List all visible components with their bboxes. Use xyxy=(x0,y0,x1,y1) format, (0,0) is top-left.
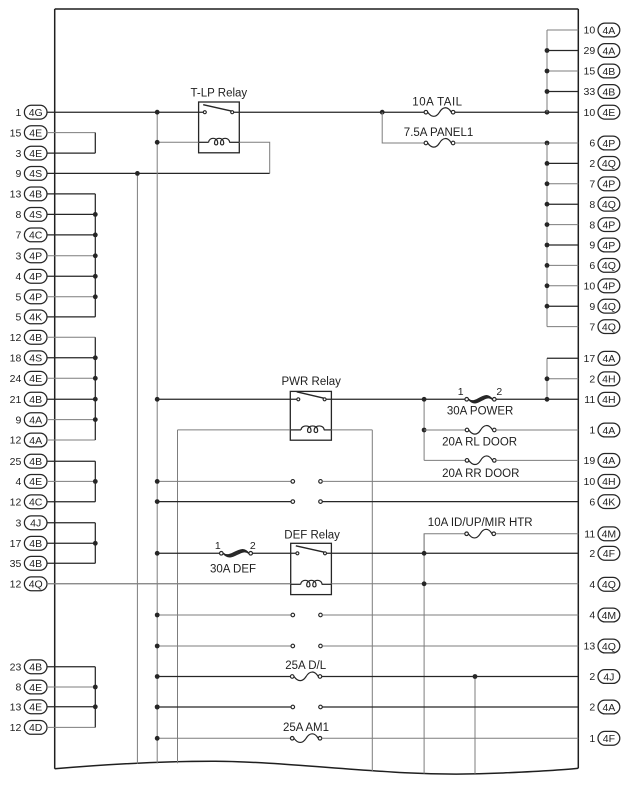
wire from pin 4 (4P) xyxy=(47,275,95,277)
svg-text:1: 1 xyxy=(589,733,595,745)
wire right bus C (power feed) xyxy=(546,358,548,399)
wire to pin 17 (4A) xyxy=(547,357,578,359)
svg-text:8: 8 xyxy=(15,682,21,694)
svg-text:4S: 4S xyxy=(29,168,42,180)
wire row y=615.0 left segment xyxy=(157,614,291,616)
svg-text:5: 5 xyxy=(15,312,21,324)
wire 30A POWER to 11(4H) xyxy=(496,398,578,400)
svg-text:2: 2 xyxy=(589,702,595,714)
junction 9(4S) row / x137 feed xyxy=(135,171,140,176)
junction POWER row / bus C xyxy=(545,397,550,402)
wire from pin 12 (4A) xyxy=(47,439,95,441)
junction bus / 7 (4P) row xyxy=(545,181,550,186)
connector pair terminals row y=501.6 xyxy=(291,500,295,504)
svg-text:8: 8 xyxy=(589,199,595,211)
wire from pin 5 (4P) xyxy=(47,296,95,298)
relay U3 DEF switch blade xyxy=(296,546,325,552)
svg-text:4P: 4P xyxy=(29,292,42,304)
junction on bracket at y=296.8 xyxy=(93,294,98,299)
wire from pin 12 (4D) xyxy=(47,726,95,728)
junction x157 DEF feed xyxy=(155,551,160,556)
junction on bracket at y=481.4 xyxy=(93,479,98,484)
wire from pin 12 (4C) xyxy=(47,501,95,503)
wire PWR coil left branch xyxy=(178,429,291,431)
junction T-LP coil feed xyxy=(155,140,160,145)
wire from pin 8 (4E) xyxy=(47,686,95,688)
frame border bottom wavy edge xyxy=(55,761,579,774)
connector pair terminals row y=707.0 xyxy=(291,705,295,709)
wire from pin 13 (4E) xyxy=(47,706,95,708)
wire from pin 3 (4J) xyxy=(47,522,95,524)
junction on bracket at y=255.8 xyxy=(93,253,98,258)
wire bracket joining 3(4J)..35(4B) xyxy=(94,523,96,564)
wire row y=707.0 right segment xyxy=(322,706,578,708)
svg-text:4J: 4J xyxy=(30,518,41,530)
wire to pin 33 (4B) xyxy=(547,91,578,93)
wire to pin 6 (4Q) xyxy=(547,264,578,266)
wire ID/UP/MIR HTR row xyxy=(424,534,465,554)
wire from pin 23 (4B) xyxy=(47,666,95,668)
svg-text:4A: 4A xyxy=(602,702,615,714)
svg-text:4B: 4B xyxy=(29,538,42,550)
wire 25A D/L row xyxy=(157,676,290,678)
wire bracket joining 23(4B)..12(4D) xyxy=(94,667,96,728)
junction x157 row y=707.0 xyxy=(155,705,160,710)
svg-text:4A: 4A xyxy=(602,425,615,437)
junction TAIL/PANEL branch xyxy=(380,110,385,115)
relay U1 T-LP switch blade xyxy=(203,105,231,111)
svg-text:2: 2 xyxy=(589,158,595,170)
junction bus / 10 (4P) row xyxy=(545,283,550,288)
wire from pin 18 (4S) xyxy=(47,357,95,359)
svg-text:11: 11 xyxy=(584,394,595,406)
svg-text:4H: 4H xyxy=(602,394,615,406)
junction bus / 29 (4A) row xyxy=(545,48,550,53)
svg-text:10A TAIL: 10A TAIL xyxy=(412,96,462,108)
wire 30A DEF to DEF relay xyxy=(253,552,296,554)
junction x157 on 1(4G) row xyxy=(155,110,160,115)
wire right bus A (tail lamps) xyxy=(546,30,548,112)
junction DEF coil row x424 xyxy=(422,581,427,586)
wire to pin 2 (4H) xyxy=(547,378,578,380)
wire from pin 9 (4A) xyxy=(47,419,95,421)
junction x157 row y=646.0 xyxy=(155,644,160,649)
relay U3 DEF switch contacts xyxy=(296,552,299,555)
svg-text:4A: 4A xyxy=(29,414,42,426)
svg-text:7: 7 xyxy=(589,321,595,333)
svg-text:5: 5 xyxy=(15,292,21,304)
svg-text:4A: 4A xyxy=(602,25,615,37)
wire from pin 35 (4B) xyxy=(47,562,95,564)
wire PWR switch output to 30A POWER xyxy=(326,398,465,400)
wire vertical main feed from 1(4G) row x=157 xyxy=(156,112,158,763)
junction on bracket at y=419.6 xyxy=(93,417,98,422)
junction x157 row y=481.4 xyxy=(155,479,160,484)
svg-text:2: 2 xyxy=(250,540,256,552)
svg-text:11: 11 xyxy=(584,529,595,541)
wire bracket joining 25(4B)..12(4C) xyxy=(94,461,96,502)
svg-text:25A AM1: 25A AM1 xyxy=(283,722,329,734)
svg-text:35: 35 xyxy=(10,558,22,570)
wire from pin 8 (4S) xyxy=(47,213,95,215)
svg-text:4E: 4E xyxy=(29,127,42,139)
junction on bracket at y=234.9 xyxy=(93,233,98,238)
svg-text:3: 3 xyxy=(15,148,21,160)
svg-text:33: 33 xyxy=(584,86,596,98)
svg-text:2: 2 xyxy=(589,374,595,386)
svg-text:4D: 4D xyxy=(29,722,43,734)
svg-text:4F: 4F xyxy=(603,548,615,560)
svg-text:4G: 4G xyxy=(29,107,43,119)
junction on bracket at y=276.3 xyxy=(93,274,98,279)
wire vertical from PWR coil right x=372 xyxy=(371,430,373,772)
svg-text:9: 9 xyxy=(15,168,21,180)
svg-text:4Q: 4Q xyxy=(602,321,616,333)
svg-text:13: 13 xyxy=(10,189,22,201)
wire to pin 9 (4P) xyxy=(547,244,578,246)
junction x157 PWR feed xyxy=(155,397,160,402)
junction PANEL1 row / right bus xyxy=(545,141,550,146)
wire to pin 10 (4A) xyxy=(547,29,578,31)
svg-text:4E: 4E xyxy=(29,702,42,714)
wire PANEL1 branch drop xyxy=(382,112,424,143)
svg-text:18: 18 xyxy=(10,353,22,365)
svg-text:4: 4 xyxy=(15,476,21,488)
svg-text:29: 29 xyxy=(584,45,596,57)
svg-text:4S: 4S xyxy=(29,353,42,365)
svg-text:6: 6 xyxy=(589,138,595,150)
svg-text:4M: 4M xyxy=(602,610,617,622)
wire to pin 29 (4A) xyxy=(547,50,578,52)
svg-text:10A ID/UP/MIR HTR: 10A ID/UP/MIR HTR xyxy=(428,517,533,529)
wire from pin 12 (4Q) xyxy=(47,583,291,585)
wire RR door row xyxy=(424,459,465,461)
relay U2 PWR coil xyxy=(290,429,301,431)
relay U3 DEF coil xyxy=(291,583,301,585)
junction DEF switch row x424 xyxy=(422,551,427,556)
svg-text:4K: 4K xyxy=(29,312,42,324)
wire to pin 8 (4P) xyxy=(547,224,578,226)
svg-text:10: 10 xyxy=(584,25,596,37)
wire DEF coil to 4(4Q) xyxy=(331,583,578,585)
relay U2 PWR switch contacts xyxy=(297,398,300,401)
svg-text:12: 12 xyxy=(10,435,22,447)
svg-text:4P: 4P xyxy=(602,281,615,293)
svg-text:2: 2 xyxy=(589,671,595,683)
wire bracket joining 13(4B)..5(4K) xyxy=(94,194,96,317)
svg-text:20A RR DOOR: 20A RR DOOR xyxy=(442,468,519,480)
wire right bus B (panel lamps) xyxy=(546,143,548,327)
relay U1 T-LP switch contacts xyxy=(203,111,206,114)
svg-text:4J: 4J xyxy=(603,671,614,683)
svg-text:12: 12 xyxy=(10,497,22,509)
wire to pin 7 (4P) xyxy=(547,183,578,185)
svg-text:7: 7 xyxy=(15,230,21,242)
wire DEF feed from x157 to 30A DEF xyxy=(157,552,219,554)
wire PANEL1 fuse to 6(4P) xyxy=(455,142,578,144)
svg-text:13: 13 xyxy=(10,702,22,714)
svg-text:24: 24 xyxy=(10,373,22,385)
svg-text:4B: 4B xyxy=(602,66,615,78)
svg-text:4Q: 4Q xyxy=(602,260,616,272)
svg-text:4B: 4B xyxy=(29,332,42,344)
wire from pin 3 (4P) xyxy=(47,255,95,257)
svg-text:3: 3 xyxy=(15,251,21,263)
svg-text:4E: 4E xyxy=(602,107,615,119)
svg-text:4Q: 4Q xyxy=(602,158,616,170)
wire from pin 21 (4B) xyxy=(47,398,95,400)
svg-text:4A: 4A xyxy=(29,435,42,447)
svg-text:1: 1 xyxy=(15,107,21,119)
junction D/L row x475 xyxy=(473,674,478,679)
svg-text:9: 9 xyxy=(589,240,595,252)
svg-text:4E: 4E xyxy=(29,476,42,488)
svg-text:4Q: 4Q xyxy=(602,579,616,591)
wire from pin 7 (4C) xyxy=(47,234,95,236)
wire 25A AM1 row xyxy=(157,737,290,739)
svg-text:6: 6 xyxy=(589,260,595,272)
svg-text:8: 8 xyxy=(589,219,595,231)
svg-text:10: 10 xyxy=(584,281,596,293)
svg-text:25A D/L: 25A D/L xyxy=(285,660,327,672)
svg-text:19: 19 xyxy=(584,455,596,467)
svg-text:4B: 4B xyxy=(29,189,42,201)
frame border left xyxy=(54,9,56,769)
svg-text:4S: 4S xyxy=(29,209,42,221)
wire T-LP coil feed from x157 xyxy=(157,141,198,143)
wire 12(4Q) row to DEF coil (left) xyxy=(47,583,291,585)
svg-text:21: 21 xyxy=(10,394,22,406)
wire from pin 12 (4B) xyxy=(47,336,95,338)
svg-text:DEF Relay: DEF Relay xyxy=(284,529,340,541)
junction bus / 8 (4P) row xyxy=(545,222,550,227)
svg-text:4Q: 4Q xyxy=(602,199,616,211)
wire row y=501.6 right segment xyxy=(322,501,578,503)
wire from pin 17 (4B) xyxy=(47,542,95,544)
svg-text:4P: 4P xyxy=(29,271,42,283)
svg-text:4P: 4P xyxy=(602,138,615,150)
svg-text:4: 4 xyxy=(15,271,21,283)
svg-text:1: 1 xyxy=(458,386,464,398)
wire from pin 4 (4E) xyxy=(47,480,95,482)
wire T-LP switch output to 10A TAIL xyxy=(234,111,424,113)
wire vertical x=424 (POWER to RL/RR door) xyxy=(423,399,425,460)
junction on bracket at y=687.0 xyxy=(93,685,98,690)
wire vertical x=424 (ID fuse / DEF rows to bottom) xyxy=(423,534,425,774)
svg-text:4P: 4P xyxy=(602,219,615,231)
wire from pin 9 (4S) xyxy=(47,172,270,174)
wire T-LP coil right to 9(4S) row xyxy=(239,142,269,173)
svg-text:4A: 4A xyxy=(602,455,615,467)
wire from pin 25 (4B) xyxy=(47,460,95,462)
junction x157 row y=501.6 xyxy=(155,499,160,504)
wire row y=707.0 left segment xyxy=(157,706,291,708)
svg-text:20A RL DOOR: 20A RL DOOR xyxy=(442,437,517,449)
svg-text:4E: 4E xyxy=(29,682,42,694)
junction on bracket at y=399.2 xyxy=(93,397,98,402)
wire TAIL fuse to 10(4E) xyxy=(455,111,578,113)
svg-text:4M: 4M xyxy=(602,529,617,541)
wire bracket joining 12(4B)..12(4A) xyxy=(94,337,96,440)
svg-text:4H: 4H xyxy=(602,476,615,488)
wire vertical feed from 9(4S) row x=137 xyxy=(136,173,138,763)
svg-text:4H: 4H xyxy=(602,374,615,386)
svg-text:15: 15 xyxy=(584,66,596,78)
wire RL door row xyxy=(424,429,465,431)
wire from pin 24 (4E) xyxy=(47,377,95,379)
connector pair terminals row y=481.4 xyxy=(291,480,295,484)
svg-text:PWR Relay: PWR Relay xyxy=(282,376,342,388)
wire to pin 8 (4Q) xyxy=(547,203,578,205)
svg-text:4F: 4F xyxy=(603,733,615,745)
svg-text:4P: 4P xyxy=(29,251,42,263)
svg-text:4A: 4A xyxy=(602,45,615,57)
junction bus / 9 (4Q) row xyxy=(545,304,550,309)
wire from pin 5 (4K) xyxy=(47,316,95,318)
connector pair terminals row y=615.0 xyxy=(291,613,295,617)
svg-text:12: 12 xyxy=(10,579,22,591)
wire from pin 15 (4E) xyxy=(47,132,95,134)
svg-text:4Q: 4Q xyxy=(602,641,616,653)
wire PWR switch feed from x157 xyxy=(157,398,297,400)
svg-text:9: 9 xyxy=(15,414,21,426)
wire from pin 1 (4G) xyxy=(47,111,203,113)
wire to pin 15 (4B) xyxy=(547,70,578,72)
junction on bracket at y=706.8 xyxy=(93,704,98,709)
relay U2 PWR switch blade xyxy=(297,392,324,398)
svg-text:10: 10 xyxy=(584,107,596,119)
svg-text:4E: 4E xyxy=(29,373,42,385)
wire DEF switch output to 2(4F) xyxy=(327,552,579,554)
svg-text:4B: 4B xyxy=(29,456,42,468)
svg-text:T-LP Relay: T-LP Relay xyxy=(191,88,248,100)
svg-text:3: 3 xyxy=(15,518,21,530)
svg-text:30A POWER: 30A POWER xyxy=(447,406,513,418)
wire row y=481.4 right segment xyxy=(322,480,578,482)
junction bus / 6 (4Q) row xyxy=(545,263,550,268)
wire row y=646.0 left segment xyxy=(157,645,291,647)
wire from pin 3 (4E) xyxy=(47,152,95,154)
svg-text:12: 12 xyxy=(10,332,22,344)
svg-text:25: 25 xyxy=(10,456,22,468)
svg-text:30A DEF: 30A DEF xyxy=(210,563,256,575)
wire to pin 7 (4Q) xyxy=(547,326,578,328)
junction on bracket at y=543.3 xyxy=(93,541,98,546)
junction bus / 9 (4P) row xyxy=(545,243,550,248)
svg-text:4A: 4A xyxy=(602,353,615,365)
svg-text:10: 10 xyxy=(584,476,596,488)
junction bus / 2 (4Q) row xyxy=(545,161,550,166)
svg-text:17: 17 xyxy=(584,353,596,365)
svg-text:4B: 4B xyxy=(29,558,42,570)
svg-text:4: 4 xyxy=(589,579,595,591)
svg-text:4Q: 4Q xyxy=(29,579,43,591)
svg-text:4B: 4B xyxy=(29,662,42,674)
svg-text:8: 8 xyxy=(15,209,21,221)
relay U1 T-LP coil xyxy=(199,141,209,143)
wire to pin 10 (4P) xyxy=(547,285,578,287)
svg-text:1: 1 xyxy=(215,540,221,552)
junction on bracket at y=214.4 xyxy=(93,212,98,217)
svg-text:15: 15 xyxy=(10,127,22,139)
svg-text:4Q: 4Q xyxy=(602,301,616,313)
connector pair terminals row y=646.0 xyxy=(291,644,295,648)
junction on bracket at y=357.8 xyxy=(93,355,98,360)
junction x157 rows 707/738 already drawn xyxy=(155,705,160,710)
wire bracket joining 15(4E)/3(4E) xyxy=(94,133,96,154)
junction bus / 8 (4Q) row xyxy=(545,202,550,207)
wire vertical from PWR coil left x=177 xyxy=(177,430,179,763)
svg-text:7.5A PANEL1: 7.5A PANEL1 xyxy=(404,127,473,139)
junction POWER row branch x424 xyxy=(422,397,427,402)
junction bus / 15 (4B) row xyxy=(545,69,550,74)
wire from pin 13 (4B) xyxy=(47,193,95,195)
svg-text:4P: 4P xyxy=(602,179,615,191)
svg-text:4B: 4B xyxy=(29,394,42,406)
wire row y=501.6 left segment xyxy=(157,501,291,503)
svg-text:4P: 4P xyxy=(602,240,615,252)
svg-text:7: 7 xyxy=(589,179,595,191)
junction x157 row y=615.0 xyxy=(155,613,160,618)
frame border top xyxy=(55,8,579,10)
wire to pin 9 (4Q) xyxy=(547,305,578,307)
wire row y=615.0 right segment xyxy=(322,614,578,616)
junction RL door branch xyxy=(422,428,427,433)
svg-text:9: 9 xyxy=(589,301,595,313)
wire row y=646.0 right segment xyxy=(322,645,578,647)
wire to pin 2 (4Q) xyxy=(547,162,578,164)
wire vertical x=475 from 25A D/L row xyxy=(474,677,476,774)
svg-text:1: 1 xyxy=(589,425,595,437)
wire row y=481.4 left segment xyxy=(157,480,291,482)
svg-text:12: 12 xyxy=(10,722,22,734)
svg-text:17: 17 xyxy=(10,538,22,550)
svg-text:4E: 4E xyxy=(29,148,42,160)
svg-text:2: 2 xyxy=(589,548,595,560)
svg-text:4C: 4C xyxy=(29,497,43,509)
svg-text:4K: 4K xyxy=(602,496,615,508)
svg-text:4B: 4B xyxy=(602,86,615,98)
svg-text:23: 23 xyxy=(10,662,22,674)
wire PWR coil right branch xyxy=(331,429,372,431)
frame border right xyxy=(577,9,579,768)
junction TAIL row / right bus xyxy=(545,110,550,115)
junction bus / 33 (4B) row xyxy=(545,89,550,94)
svg-text:4: 4 xyxy=(589,610,595,622)
svg-text:2: 2 xyxy=(496,386,502,398)
svg-text:6: 6 xyxy=(589,496,595,508)
junction bus / 2 (4H) row xyxy=(545,376,550,381)
svg-text:4C: 4C xyxy=(29,230,43,242)
junction on bracket at y=378.3 xyxy=(93,376,98,381)
svg-text:13: 13 xyxy=(584,641,596,653)
